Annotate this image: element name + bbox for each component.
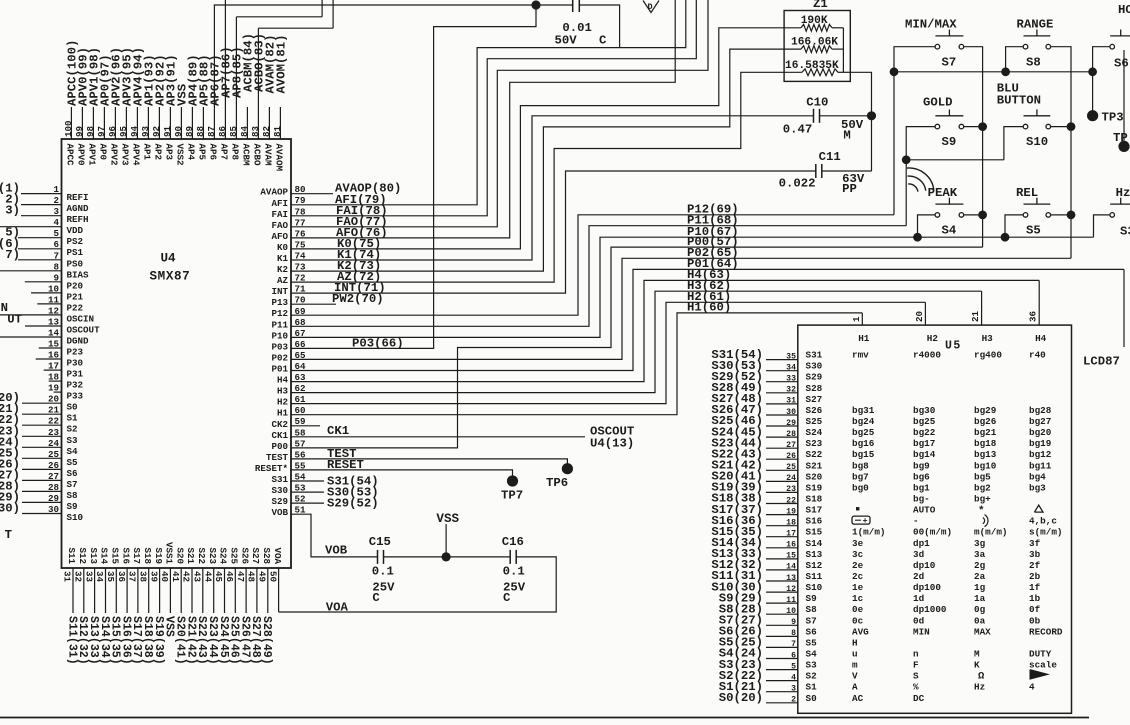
wire S9 right stub: [964, 126, 983, 128]
svg-text:85: 85: [228, 125, 239, 137]
svg-text:bg17: bg17: [913, 438, 935, 449]
wire S5 right stub: [1051, 214, 1071, 216]
U5 table row S23: [806, 438, 1052, 449]
svg-text:99: 99: [74, 126, 85, 137]
node chain dot S9 right: [978, 122, 987, 131]
svg-text:S13: S13: [806, 549, 823, 560]
svg-text:bg+: bg+: [974, 494, 991, 505]
svg-text:100: 100: [63, 120, 74, 137]
svg-text:AZ: AZ: [277, 275, 289, 286]
svg-text:PEAK: PEAK: [928, 186, 958, 200]
svg-text:rmv: rmv: [852, 350, 869, 361]
svg-text:93: 93: [140, 125, 151, 137]
U5 top pin 36: [1028, 311, 1039, 322]
svg-text:Z1: Z1: [813, 0, 828, 11]
svg-text:C: C: [599, 34, 607, 48]
svg-text:bg7: bg7: [852, 471, 869, 482]
svg-text:ACBO: ACBO: [251, 144, 262, 167]
svg-text:1c: 1c: [852, 593, 864, 604]
net label S2(22): [719, 669, 763, 683]
svg-text:VSS1: VSS1: [164, 542, 175, 565]
svg-text:FAI: FAI: [271, 209, 288, 220]
U4 pin 17 P31: [44, 361, 84, 380]
svg-text:6: 6: [791, 651, 796, 660]
svg-text:49: 49: [257, 571, 268, 582]
svg-text:45: 45: [213, 571, 224, 583]
U5 table row S13: [806, 549, 1041, 560]
U4 pin 47 S26: [235, 547, 252, 664]
svg-text:48: 48: [246, 571, 257, 583]
svg-text:P22: P22: [67, 302, 84, 313]
svg-text:A: A: [852, 682, 858, 693]
U4 pin 32 S12: [73, 547, 90, 664]
svg-text:S17: S17: [131, 547, 142, 564]
svg-text:BUTTON: BUTTON: [997, 94, 1041, 108]
svg-text:89: 89: [184, 126, 195, 137]
svg-text:bg13: bg13: [974, 449, 997, 460]
svg-text:23: 23: [786, 485, 796, 494]
U4 pin 5 PS2: [5, 226, 83, 248]
svg-text:11: 11: [786, 596, 796, 605]
U4 pin 60 H1 (number+name): [277, 405, 306, 419]
U4 pin 76 AFO (number+name): [271, 228, 305, 242]
svg-text:s(m/m): s(m/m): [1029, 527, 1062, 538]
svg-text:bg8: bg8: [852, 460, 869, 471]
svg-text:S16: S16: [806, 516, 823, 527]
net label S18(38): [711, 492, 763, 506]
svg-text:U4: U4: [161, 252, 177, 266]
U4 pin 40 VSS1: [159, 542, 176, 637]
svg-text:TP: TP: [1113, 131, 1128, 145]
wire S5 left stub: [1005, 215, 1023, 237]
svg-text:UT: UT: [7, 313, 22, 327]
svg-text:S9: S9: [67, 501, 78, 512]
svg-text:Hz: Hz: [974, 682, 985, 693]
svg-text:S21: S21: [185, 547, 196, 564]
U4 pin 74 K1 (number+name): [277, 251, 306, 265]
svg-text:APV3: APV3: [119, 144, 130, 167]
svg-text:3c: 3c: [852, 549, 864, 560]
U4 pin 79 AFI (number+name): [271, 195, 305, 209]
svg-text:REL: REL: [1016, 186, 1038, 200]
svg-text:S3: S3: [806, 660, 818, 671]
U5 table row S6: [806, 626, 1063, 637]
svg-text:S26: S26: [806, 405, 823, 416]
svg-text:S28: S28: [261, 547, 272, 564]
svg-text:S4: S4: [942, 224, 957, 238]
wire beeper top rail: [214, 4, 573, 6]
U5 pin 17 row S15: [766, 530, 798, 539]
svg-text:21: 21: [970, 310, 981, 322]
U5 pin 13 row S11: [766, 574, 798, 583]
U4 pin 6 PS1: [0, 237, 84, 258]
wire AFI(79): [291, 0, 686, 207]
wire S4 right stub: [964, 214, 983, 216]
svg-text:3b: 3b: [1029, 549, 1041, 560]
svg-text:44: 44: [202, 571, 213, 583]
svg-text:H3: H3: [277, 386, 289, 397]
svg-text:18: 18: [786, 519, 796, 528]
svg-text:TEST: TEST: [266, 452, 289, 463]
svg-text:bg15: bg15: [852, 449, 875, 460]
U4 pin 29 S9: [0, 490, 78, 512]
svg-text:AVOM(81): AVOM(81): [275, 34, 289, 93]
U5 table row S19: [806, 482, 1047, 493]
wire S4 left stub: [918, 215, 936, 237]
U5 pin 27 row S23: [766, 441, 798, 450]
svg-text:S2: S2: [67, 424, 78, 435]
U4 pin 68 P11 (number+name): [271, 317, 306, 331]
U5 pin 11 row S9: [766, 596, 798, 605]
U4 pin 72 AZ (number+name): [277, 273, 306, 287]
resistor 166.06K: [784, 37, 843, 53]
U5 table row S15: [806, 527, 1063, 538]
svg-text:RECORD: RECORD: [1029, 626, 1063, 637]
svg-text:47: 47: [235, 571, 246, 582]
net label S17(37): [711, 503, 763, 517]
U5 table row S18: [806, 494, 992, 505]
svg-text:S17: S17: [806, 505, 823, 516]
U4 pin 73 K2 (number+name): [277, 262, 306, 276]
U5 pin 10 row S8: [766, 607, 798, 616]
svg-text:91: 91: [162, 125, 173, 137]
svg-text:S18: S18: [806, 494, 823, 505]
U4 pin 77 FAO (number+name): [271, 217, 305, 231]
U5 table row S28: [806, 383, 823, 394]
svg-text:bg2: bg2: [974, 482, 991, 493]
U5 table row S2: [806, 670, 1049, 683]
net label S28(49): [711, 381, 763, 395]
svg-text:DC: DC: [913, 693, 925, 704]
U5 pin 14 row S12: [766, 563, 798, 572]
svg-text:S10: S10: [1026, 135, 1048, 149]
U4 pin 100 APCC: [63, 40, 80, 166]
U4 pin 54 S31 (number+name): [271, 472, 306, 486]
svg-text:2a: 2a: [974, 571, 986, 582]
svg-text:20: 20: [914, 311, 925, 322]
U5 table row S26: [806, 405, 1052, 416]
svg-text:scale: scale: [1029, 660, 1057, 671]
svg-text:3d: 3d: [913, 549, 924, 560]
svg-text:17: 17: [786, 530, 796, 539]
svg-text:27: 27: [786, 441, 796, 450]
capacitor C15: [369, 535, 395, 605]
svg-text:bg14: bg14: [913, 449, 936, 460]
U4 pin 51 VOB (number+name): [271, 505, 306, 519]
wire row1 rail: [894, 71, 1093, 73]
U5 table row S17: [806, 505, 1044, 518]
svg-text:S5: S5: [806, 637, 818, 648]
net label S7(27): [719, 614, 763, 628]
svg-text:C10: C10: [806, 96, 828, 110]
svg-text:bg27: bg27: [1029, 416, 1051, 427]
wire S31(54) stub: [291, 475, 379, 489]
node rail2 dot: [902, 155, 911, 164]
svg-text:K1: K1: [277, 253, 289, 264]
U5 pin 28 row S24: [766, 430, 798, 439]
svg-text:10: 10: [48, 283, 59, 294]
U4 pin 35 S15: [105, 547, 122, 664]
svg-text:H2: H2: [277, 397, 288, 408]
wire C10 right: [820, 115, 872, 117]
U4 pin 23 S3: [0, 424, 78, 446]
wire AFO(76): [291, 0, 675, 240]
svg-text:0c: 0c: [852, 615, 864, 626]
svg-text:15: 15: [48, 339, 60, 350]
node rail dot S8: [1001, 67, 1010, 76]
svg-text:S23: S23: [806, 438, 823, 449]
wire FAI(78): [291, 0, 696, 218]
U4 pin 70 P13 (number+name): [271, 295, 305, 309]
U5 top pin 20: [914, 311, 925, 322]
capacitor C16: [502, 535, 526, 605]
wire C15 to VSS node: [384, 556, 511, 558]
svg-text:S15: S15: [806, 527, 823, 538]
svg-text:1: 1: [851, 316, 862, 322]
svg-text:S29: S29: [806, 372, 823, 383]
svg-text:MIN: MIN: [913, 626, 930, 637]
U4 pin 16 P30: [36, 350, 83, 369]
svg-text:9: 9: [791, 618, 796, 627]
svg-text:D: D: [648, 2, 653, 12]
svg-text:1g: 1g: [974, 582, 986, 593]
U5 table row S10: [806, 582, 1041, 593]
svg-text:MIN/MAX: MIN/MAX: [905, 18, 957, 32]
wire S8 right chain: [1051, 47, 1071, 259]
wire AP8(85) to top edge: [236, 0, 322, 17]
IC U5 LCD87 outline: [798, 325, 1072, 713]
svg-text:2f: 2f: [1029, 560, 1041, 571]
U4 pin 20 S0: [0, 391, 78, 413]
svg-text:2e: 2e: [852, 560, 864, 571]
svg-text:3a: 3a: [974, 549, 986, 560]
svg-text:AP7: AP7: [218, 144, 229, 161]
svg-text:5: 5: [53, 228, 59, 239]
svg-text:bg25: bg25: [913, 416, 936, 427]
U5 table row S16: [806, 515, 1058, 527]
U4 pin 55 RESET* (number+name): [255, 460, 306, 474]
U4 pin 62 H3 (number+name): [277, 383, 306, 397]
net fragment N (left edge, OSCIN): [1, 301, 8, 315]
svg-text:87: 87: [206, 126, 217, 137]
svg-text:P12: P12: [271, 308, 288, 319]
svg-text:5: 5: [791, 662, 796, 671]
svg-text:S24: S24: [218, 547, 229, 564]
U4 pin 15 P23: [39, 339, 84, 358]
svg-text:S29: S29: [271, 496, 288, 507]
U4 pin 99 APV0: [74, 47, 91, 166]
U5 pin 4 row S2: [766, 673, 798, 682]
wire P11(68): [291, 214, 906, 327]
svg-text:9: 9: [53, 272, 59, 283]
svg-text:50: 50: [267, 571, 278, 582]
U4 pin 82 AVAM: [261, 34, 278, 166]
U5 table row S3: [806, 660, 1058, 671]
U4 pin 44 S23: [202, 547, 219, 664]
U5 pin 35 row S31: [766, 352, 798, 361]
svg-text:29: 29: [786, 419, 796, 428]
net flag D triangle: [643, 1, 659, 13]
U4 pin 27 S7: [0, 468, 78, 490]
U5 pin 33 row S29: [766, 375, 798, 384]
svg-text:15: 15: [786, 552, 796, 561]
U4 pin 50 VOA: [267, 547, 283, 612]
svg-text:31: 31: [786, 397, 796, 406]
svg-text:S31: S31: [806, 350, 823, 361]
svg-text:VDD: VDD: [67, 225, 84, 236]
U5 table row S9: [806, 593, 1041, 604]
wire Z1 to C10/C11 column: [850, 72, 871, 171]
svg-text:bg30: bg30: [913, 405, 936, 416]
wire C11 right: [822, 170, 872, 172]
wire P12 riser: [893, 72, 895, 215]
svg-text:S6: S6: [1114, 57, 1129, 71]
U4 pin 65 P02 (number+name): [271, 350, 306, 364]
svg-text:AP2: AP2: [152, 144, 163, 161]
U5 table row S4: [806, 649, 1052, 660]
node chain2 dot S5 right: [1067, 211, 1076, 220]
U4 pin 92 AP2: [151, 54, 168, 160]
svg-text:94: 94: [129, 125, 140, 137]
wire K2(73) to Z1 166.06K: [291, 49, 784, 273]
svg-text:S8: S8: [1026, 56, 1041, 70]
net fragment UT (left edge, OSCOUT): [7, 313, 22, 327]
svg-text:H: H: [852, 637, 858, 648]
U5 table row S20: [806, 471, 1047, 482]
U4 refdes label: [161, 252, 177, 266]
svg-text:2c: 2c: [852, 571, 864, 582]
U5 pin 2 row S0: [766, 696, 798, 705]
svg-text:C16: C16: [502, 535, 524, 549]
net label S25(46): [711, 414, 763, 428]
svg-text:TP6: TP6: [546, 476, 568, 490]
svg-text:S25: S25: [806, 416, 823, 427]
svg-text:AP6: AP6: [207, 144, 218, 161]
svg-text:0e: 0e: [852, 604, 864, 615]
U4 pin 37 S17: [127, 547, 144, 664]
U4 pin 10 P21: [31, 283, 84, 302]
svg-text:HO: HO: [1118, 3, 1130, 17]
node chain dot S4 right: [978, 211, 987, 220]
svg-text:S6: S6: [806, 626, 818, 637]
U4 pin 11 P22: [37, 294, 83, 313]
wire P11 riser: [905, 160, 907, 226]
svg-text:VSS2: VSS2: [174, 144, 185, 166]
U4 pin 46 S25: [224, 547, 241, 664]
U4 pin 59 CK2 (number+name): [271, 416, 305, 430]
svg-text:S13: S13: [88, 547, 99, 564]
svg-text:P10: P10: [271, 330, 288, 341]
svg-text:H2: H2: [927, 333, 939, 344]
test point TP7: [501, 475, 523, 502]
resistor 16.5835K: [784, 60, 850, 76]
svg-text:97: 97: [96, 126, 107, 137]
svg-text:bg19: bg19: [1029, 438, 1052, 449]
U4 pin 98 APV1: [85, 47, 102, 166]
svg-text:34: 34: [786, 364, 796, 373]
svg-text:DUTY: DUTY: [1029, 649, 1052, 660]
svg-text:S23: S23: [207, 547, 218, 564]
svg-text:43: 43: [192, 571, 203, 583]
svg-text:AP4: AP4: [185, 144, 196, 161]
wire S29(52) stub: [291, 497, 379, 511]
U4 pin 38 S18: [137, 547, 154, 664]
svg-text:S2: S2: [806, 671, 818, 682]
svg-text:S21: S21: [806, 460, 823, 471]
U4 pin 24 S4: [0, 435, 78, 457]
svg-text:-: -: [913, 516, 919, 527]
svg-text:98: 98: [85, 125, 96, 137]
U5 pin 18 row S16: [766, 519, 798, 528]
wire Z1 internal tie: [842, 28, 844, 73]
net label S15(35): [711, 525, 763, 539]
svg-text:26: 26: [48, 460, 59, 471]
svg-text:BIAS: BIAS: [67, 269, 90, 280]
wire S7 left to rail: [894, 47, 935, 72]
svg-text:VOB: VOB: [325, 544, 348, 558]
svg-text:1(m/m): 1(m/m): [852, 527, 885, 538]
U4 pin 26 S6: [0, 457, 78, 479]
svg-text:K: K: [974, 660, 980, 671]
svg-text:1a: 1a: [974, 593, 986, 604]
U4 pin 33 S13: [83, 547, 100, 664]
wire H1(60): [291, 301, 862, 415]
U5 pin 30 row S26: [766, 408, 798, 417]
svg-text:8: 8: [53, 261, 59, 272]
switch S6 HOLD: [1110, 3, 1130, 71]
svg-text:P11: P11: [271, 319, 288, 330]
wire P02(65): [291, 246, 1071, 359]
svg-text:AP5: AP5: [196, 144, 207, 161]
wire INT(71) to C11: [291, 171, 816, 295]
svg-text:19: 19: [786, 507, 796, 516]
U4 pin 48 S27: [246, 547, 263, 664]
svg-text:P02: P02: [271, 352, 288, 363]
U5 pin 16 row S14: [766, 541, 798, 550]
svg-text:3g: 3g: [974, 538, 986, 549]
svg-text:S11: S11: [66, 547, 77, 564]
wire AVAOP(80) stub: [291, 182, 401, 196]
svg-text:GOLD: GOLD: [923, 96, 953, 110]
U5 table row S12: [806, 560, 1041, 571]
U4 pin 94 APV4: [129, 47, 146, 166]
U4 pin 57 P00 (number+name): [271, 438, 305, 452]
U4 pin 28 S8: [0, 479, 78, 501]
svg-text:S1: S1: [67, 413, 79, 424]
svg-text:1f: 1f: [1029, 582, 1041, 593]
U4 pin 2 AGND: [5, 193, 89, 215]
U5 pin 34 row S30: [766, 364, 798, 373]
svg-text:P31: P31: [67, 369, 84, 380]
svg-text:30: 30: [786, 408, 796, 417]
U5 pin 29 row S25: [766, 419, 798, 428]
svg-text:bg20: bg20: [1029, 427, 1052, 438]
svg-text:36: 36: [116, 571, 127, 582]
U4 pin 8 BIAS: [0, 261, 89, 280]
wire rail to TP3: [1092, 72, 1094, 116]
svg-text:DGND: DGND: [67, 336, 90, 347]
svg-text:14: 14: [48, 328, 60, 339]
svg-text:LCD87: LCD87: [1083, 355, 1120, 369]
svg-text:RANGE: RANGE: [1017, 18, 1054, 32]
wire P03(66) riser to top rail: [291, 5, 536, 350]
U5 pin 31 row S27: [766, 397, 798, 406]
U4 pin 80 AVAOP (number+name): [260, 184, 305, 198]
node P10 dot S4: [913, 233, 922, 242]
svg-text:7): 7): [5, 248, 20, 262]
net label S16(36): [711, 514, 763, 528]
svg-text:K2: K2: [277, 264, 288, 275]
